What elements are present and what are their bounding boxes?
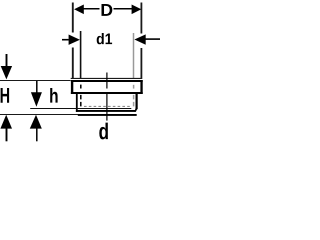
arrowhead d1 right (points left): [134, 34, 145, 44]
body flange left edge (bold): [71, 80, 73, 94]
upper pipe left wall / D extension line (upper segment): [72, 3, 74, 33]
body flange top edge (bold): [71, 80, 143, 82]
upper pipe left wall (lower segment): [72, 48, 74, 80]
upper pipe right wall / D extension line (upper segment): [140, 3, 142, 34]
part bottom edge (bold): [78, 114, 137, 116]
hidden bottom edge (dashed gray): [84, 105, 131, 107]
dimension line D (right segment): [114, 8, 133, 10]
hidden inner wall right, dashes below flange (gray): [133, 95, 135, 107]
arrowhead d1 left (points right): [69, 35, 80, 45]
h bottom arrow stem: [36, 128, 38, 141]
dimension line D (left segment): [83, 8, 100, 10]
H/h top reference line: [0, 80, 71, 82]
upper pipe right wall (lower segment): [140, 48, 142, 79]
label d: [99, 123, 108, 140]
hidden inner wall right, dash inside flange (gray): [133, 85, 135, 89]
extension line d1 right (gray): [133, 33, 135, 79]
h arrowhead (points down): [31, 92, 42, 107]
label h: [50, 88, 57, 103]
label D: [102, 4, 113, 16]
hidden inner wall left, dashes below flange: [80, 95, 82, 108]
h bottom arrowhead (points up): [30, 115, 42, 129]
spigot right bottom chamfer: [135, 109, 138, 112]
label d1: [97, 33, 112, 44]
body flange right edge (bold): [140, 80, 142, 94]
arrowhead D right: [132, 5, 142, 15]
h arrow stem (from top line): [36, 81, 38, 93]
spigot right edge (bold): [136, 94, 138, 109]
arrowhead D left: [74, 5, 84, 15]
H bottom arrowhead (points up): [0, 115, 12, 129]
upper pipe broken end edge: [71, 77, 142, 79]
dimension d1 right tail: [145, 38, 160, 40]
dimension d1 left tail: [62, 39, 69, 41]
extension line d1 left: [80, 31, 82, 79]
H bottom arrow stem: [6, 128, 8, 141]
centerline / leader for d (lower segment): [106, 92, 108, 121]
h bottom reference line / bead top edge: [30, 108, 131, 110]
bead bold edge: [76, 110, 135, 112]
body flange bottom edge (bold): [71, 92, 143, 94]
hidden inner wall left, dash inside flange: [80, 85, 82, 89]
centerline / leader for d (upper segment): [106, 73, 108, 89]
spigot left edge (bold): [76, 94, 78, 112]
H top arrow stem: [6, 54, 8, 67]
H bottom reference line: [0, 114, 78, 116]
label H: [1, 88, 10, 103]
H top arrowhead (points down): [1, 66, 12, 79]
